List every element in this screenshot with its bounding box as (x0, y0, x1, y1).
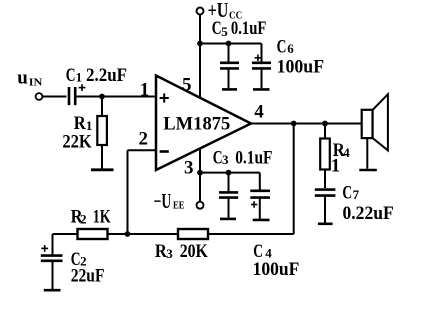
label R4 1 (331, 140, 351, 177)
label C4 100uF (253, 241, 300, 280)
capacitor C4 (250, 191, 270, 219)
svg-text:EE: EE (173, 199, 184, 211)
svg-text:0.1uF: 0.1uF (235, 147, 272, 168)
junction node C5 (226, 41, 232, 47)
svg-text:5: 5 (221, 24, 228, 39)
svg-text:2.2uF: 2.2uF (86, 65, 127, 86)
svg-text:0.22uF: 0.22uF (343, 203, 394, 224)
node uIN input terminal (36, 93, 43, 100)
svg-text:20K: 20K (180, 241, 208, 262)
svg-text:22K: 22K (62, 132, 92, 153)
label C1 2.2uF (66, 65, 127, 86)
ground of C2 (44, 289, 61, 292)
junction node Vee rail (197, 170, 203, 176)
svg-text:C: C (212, 18, 222, 39)
pin 3 label (184, 158, 194, 179)
+Ucc terminal (197, 8, 204, 15)
svg-text:1K: 1K (93, 207, 111, 228)
capacitor C5 (220, 44, 239, 89)
resistor R1 (97, 97, 107, 170)
label +Ucc (208, 0, 243, 22)
svg-text:0.1uF: 0.1uF (231, 18, 267, 39)
wire input terminal to C1 (43, 96, 67, 98)
capacitor C1 (69, 87, 75, 105)
-Uee terminal (197, 202, 204, 209)
svg-text:1: 1 (86, 118, 93, 133)
svg-text:4: 4 (254, 102, 264, 123)
capacitor C3 (219, 173, 238, 218)
op-amp inverting - mark (160, 150, 169, 153)
svg-text:1: 1 (76, 70, 83, 85)
wire to -Uee terminal (199, 173, 201, 202)
wire R3 to feedback node (208, 233, 294, 235)
junction node feedback/R2/pin2 (125, 231, 131, 237)
label C5 0.1uF (212, 18, 267, 39)
label C7 0.22uF (342, 183, 393, 225)
pin 3 wire from op-amp (199, 148, 201, 172)
wire C1 to pin 1 (77, 96, 156, 98)
resistor R4 (320, 124, 330, 189)
wire +Ucc to pin 5 (199, 14, 201, 97)
capacitor C7 (315, 190, 336, 223)
svg-text:1: 1 (331, 155, 341, 176)
svg-text:u: u (17, 68, 28, 89)
label -Uee (154, 189, 185, 213)
svg-text:2: 2 (80, 211, 87, 226)
svg-text:R: R (155, 241, 167, 262)
label uIN (17, 68, 43, 89)
wire R2 to junction (108, 233, 179, 235)
svg-text:C: C (342, 183, 352, 204)
polarity + of C2 (41, 245, 48, 252)
wire Vee rail to C3/C4 (200, 173, 260, 191)
svg-text:3: 3 (184, 158, 194, 179)
wire Vcc rail to C5/C6 (200, 44, 262, 62)
svg-text:−U: −U (154, 189, 172, 213)
ground of C3 (220, 218, 236, 221)
junction node C1/R1/pin1 (99, 94, 105, 100)
svg-text:1: 1 (140, 80, 150, 101)
capacitor C2 (41, 256, 63, 289)
svg-text:22uF: 22uF (71, 266, 105, 287)
wire speaker to ground (366, 138, 368, 169)
label LM1875 (163, 114, 230, 135)
junction node output/R4 (322, 121, 328, 127)
label C2 22uF (71, 249, 105, 287)
resistor R3 (178, 229, 208, 239)
svg-text:100uF: 100uF (253, 259, 300, 280)
pin 2 wire (128, 150, 156, 234)
capacitor C6 (252, 63, 271, 88)
svg-text:3: 3 (166, 246, 173, 261)
resistor R2 (78, 229, 108, 239)
svg-text:7: 7 (353, 187, 360, 202)
bottom wire C2 to R2 (53, 234, 78, 255)
svg-text:LM1875: LM1875 (163, 114, 230, 135)
label R1 22K (62, 113, 92, 152)
pin 5 label (182, 75, 192, 96)
svg-text:IN: IN (29, 78, 43, 89)
pin 4 label (254, 102, 264, 123)
ground of C4 (253, 219, 270, 222)
ground of C7 (318, 223, 333, 226)
junction node C3 (226, 170, 232, 176)
svg-text:2: 2 (139, 129, 149, 150)
svg-text:4: 4 (343, 145, 350, 160)
polarity + of C4 (251, 201, 257, 207)
ground of speaker (359, 169, 377, 172)
polarity + of C1 (79, 84, 86, 91)
label C3 0.1uF (213, 147, 273, 168)
label C6 100uF (277, 37, 325, 78)
ground of C6 (253, 88, 270, 91)
svg-text:C: C (66, 65, 76, 86)
label R3 20K (155, 241, 208, 262)
svg-text:3: 3 (222, 152, 229, 167)
feedback wire down (293, 124, 295, 235)
label R2 1K (71, 207, 111, 228)
pin 1 label (140, 80, 150, 101)
svg-text:C: C (277, 37, 287, 58)
svg-text:5: 5 (182, 75, 192, 96)
pin 2 label (139, 129, 149, 150)
junction node Vcc rail (197, 41, 203, 47)
svg-text:6: 6 (287, 41, 294, 56)
svg-text:100uF: 100uF (277, 57, 325, 78)
ground of R1 (91, 168, 114, 171)
junction node output/feedback (291, 121, 297, 127)
polarity + of C6 (255, 55, 262, 62)
op-amp U1 LM1875 triangle (156, 76, 251, 171)
speaker LS1 (362, 94, 388, 150)
ground of C5 (222, 88, 237, 91)
output wire pin 4 (251, 123, 361, 125)
op-amp noninverting + mark (160, 93, 169, 102)
